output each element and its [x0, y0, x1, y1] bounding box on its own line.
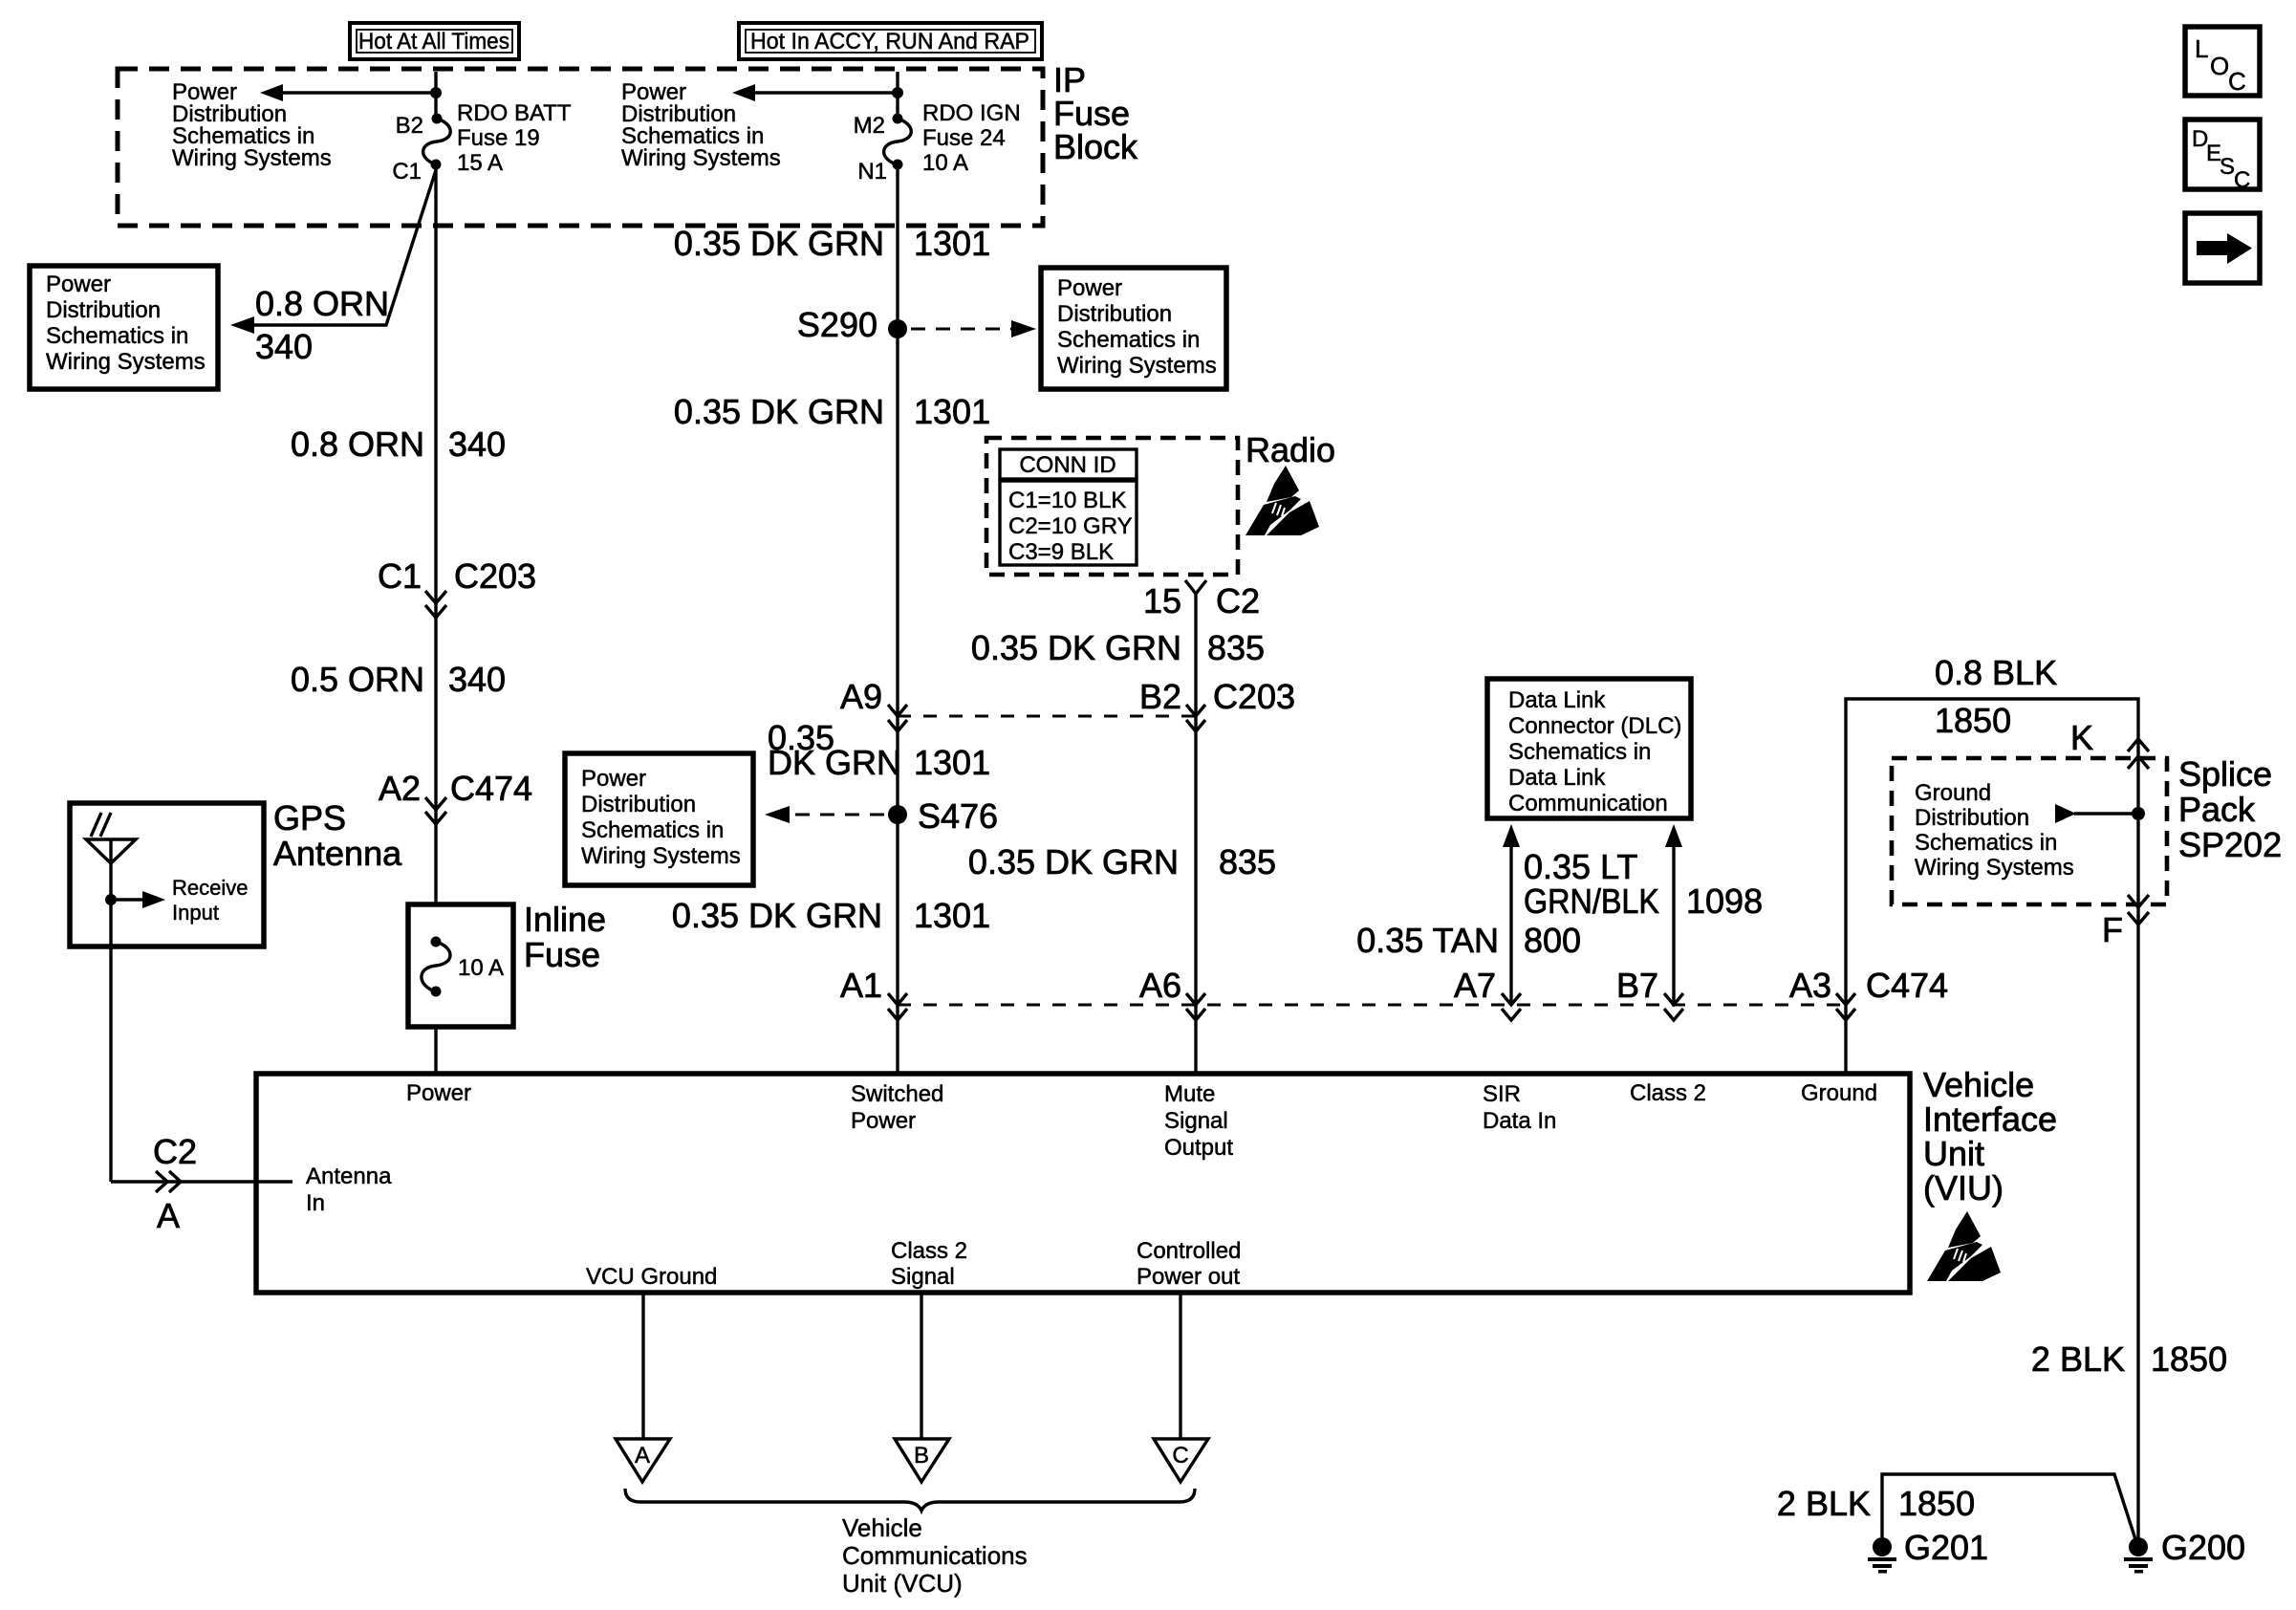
svg-text:C2: C2	[153, 1132, 197, 1171]
svg-text:1301: 1301	[914, 743, 990, 782]
text: Power Distribution Schematics in Wiring Systems (fuse block middle)	[621, 79, 781, 171]
svg-text:Wiring Systems: Wiring Systems	[46, 349, 206, 375]
svg-text:Data In: Data In	[1483, 1108, 1556, 1134]
svg-text:Power out: Power out	[1137, 1264, 1240, 1290]
svg-text:Connector (DLC): Connector (DLC)	[1508, 713, 1681, 739]
splice S290	[797, 305, 907, 344]
pin label: SIR Data In	[1483, 1081, 1556, 1134]
box: GPS Antenna	[70, 803, 264, 946]
IP Fuse Block dashed boundary	[118, 69, 1043, 226]
svg-text:S476: S476	[918, 796, 998, 836]
ESD symbol (VIU)	[1927, 1211, 2001, 1281]
brace: Vehicle Communications Unit group	[625, 1489, 1195, 1511]
svg-text:Distribution: Distribution	[581, 792, 696, 817]
svg-text:C203: C203	[1213, 677, 1295, 716]
svg-text:Receive: Receive	[172, 876, 248, 900]
connector A2 / C474 (power wire)	[379, 769, 532, 824]
pin label: Mute Signal Output	[1164, 1081, 1233, 1161]
box: Power Distribution Schematics in Wiring Systems (right of S290)	[1041, 268, 1226, 389]
node: junction on RDO IGN feed	[892, 87, 903, 98]
pin label: Controlled Power out	[1137, 1238, 1241, 1290]
terminal A	[616, 1439, 670, 1482]
svg-text:Block: Block	[1053, 127, 1138, 166]
wire: SIR data in 0.35 TAN 800 (arrow up into DLC)	[1503, 824, 1520, 1005]
svg-text:Unit (VCU): Unit (VCU)	[842, 1569, 963, 1598]
svg-text:C2=10 GRY: C2=10 GRY	[1008, 513, 1133, 539]
connector C2 / A (antenna lead)	[153, 1132, 197, 1235]
svg-text:C474: C474	[450, 769, 532, 808]
arrow: Receive Input	[111, 876, 248, 925]
svg-text:Fuse 24: Fuse 24	[922, 125, 1006, 151]
svg-text:(VIU): (VIU)	[1923, 1168, 2004, 1207]
label: 0.35 LT GRN/BLK / 1098	[1524, 847, 1763, 921]
arrow: ground distribution tap	[2055, 804, 2138, 823]
label: 0.35 DK GRN / 835 (below B2)	[968, 842, 1276, 881]
wire: VCU ground lead A	[641, 1293, 644, 1439]
svg-text:A1: A1	[840, 966, 882, 1005]
ground G200	[2124, 1528, 2245, 1574]
label: Splice Pack SP202	[2178, 754, 2282, 864]
svg-text:C: C	[2234, 167, 2250, 193]
svg-text:A3: A3	[1789, 966, 1831, 1005]
svg-text:835: 835	[1219, 842, 1276, 881]
wire: inline fuse to VIU Power pin	[434, 1027, 437, 1074]
fuse: RDO BATT Fuse 19 15 A	[392, 100, 572, 185]
wire: Controlled power out lead C	[1179, 1293, 1181, 1439]
svg-text:Inline: Inline	[524, 900, 606, 939]
svg-text:15 A: 15 A	[457, 150, 503, 176]
svg-text:RDO IGN: RDO IGN	[922, 100, 1021, 126]
svg-text:C1: C1	[378, 556, 422, 596]
svg-text:M2: M2	[854, 113, 885, 139]
svg-text:C: C	[1172, 1443, 1188, 1469]
svg-text:GPS: GPS	[273, 798, 346, 838]
svg-text:Distribution: Distribution	[46, 297, 161, 323]
svg-text:Controlled: Controlled	[1137, 1238, 1241, 1264]
svg-text:A: A	[157, 1196, 180, 1235]
box: Data Link Connector (DLC) Schematics	[1487, 679, 1691, 818]
svg-text:C3=9 BLK: C3=9 BLK	[1008, 539, 1114, 565]
svg-text:Hot At All Times: Hot At All Times	[358, 29, 509, 54]
svg-text:0.35 DK GRN: 0.35 DK GRN	[674, 392, 884, 431]
label: 0.35 DK GRN / 1301 (above S290)	[674, 224, 990, 263]
dashed arrow: S290 to Power Distribution box	[911, 320, 1036, 337]
svg-text:G200: G200	[2161, 1528, 2245, 1567]
svg-text:Power: Power	[1057, 275, 1122, 301]
svg-text:0.8 ORN: 0.8 ORN	[291, 424, 424, 464]
text: Ground Distribution Schematics in Wiring Systems	[1915, 780, 2074, 881]
svg-text:A: A	[635, 1443, 650, 1469]
connector A1 (switched wire at C474)	[840, 966, 907, 1020]
svg-text:1098: 1098	[1686, 881, 1763, 921]
svg-text:Data Link: Data Link	[1508, 687, 1606, 713]
text: Power Distribution Schematics in Wiring Systems (fuse block left)	[172, 79, 332, 171]
connector K (splice pack input)	[2070, 718, 2149, 769]
svg-text:Wiring Systems: Wiring Systems	[1057, 353, 1217, 379]
svg-text:Schematics in: Schematics in	[1057, 327, 1200, 353]
svg-text:Distribution: Distribution	[1057, 301, 1172, 327]
svg-text:Schematics in: Schematics in	[581, 817, 724, 843]
label: 2 BLK / 1850 (main ground wire)	[2031, 1339, 2227, 1379]
svg-text:Ground: Ground	[1801, 1080, 1877, 1106]
pin label: Switched Power	[851, 1081, 943, 1134]
box: Power Distribution Schematics in Wiring Systems (center)	[565, 753, 753, 885]
svg-text:10 A: 10 A	[922, 150, 968, 176]
label: 0.8 ORN / 340 (branch)	[255, 284, 389, 366]
svg-text:0.35 TAN: 0.35 TAN	[1356, 921, 1499, 960]
dashed connector line C474 (A1 to A3)	[898, 1004, 1846, 1007]
connector C1 / C203 (power wire)	[378, 556, 536, 618]
svg-text:Unit: Unit	[1923, 1134, 1984, 1173]
connector A3 / C474 (ground wire)	[1789, 966, 1948, 1020]
svg-text:F: F	[2102, 910, 2123, 949]
label: 0.35 DK GRN / 1301 (below S290)	[674, 392, 990, 431]
wire: branch to G201	[1882, 1474, 2135, 1539]
svg-text:Communications: Communications	[842, 1541, 1028, 1570]
svg-text:Class 2: Class 2	[891, 1238, 967, 1264]
svg-text:1850: 1850	[1898, 1484, 1975, 1523]
svg-text:C2: C2	[1216, 581, 1260, 620]
svg-text:Communication: Communication	[1508, 791, 1668, 816]
svg-text:Vehicle: Vehicle	[1923, 1065, 2034, 1104]
svg-text:1301: 1301	[914, 896, 990, 935]
svg-text:B7: B7	[1616, 966, 1658, 1005]
svg-text:SP202: SP202	[2178, 825, 2282, 864]
label: 0.35 / DK GRN / 1301 (below A9)	[768, 718, 990, 782]
svg-text:CONN ID: CONN ID	[1019, 452, 1116, 478]
svg-text:S290: S290	[797, 305, 877, 344]
wire: RDO BATT feed from hot bus	[434, 72, 437, 119]
svg-text:Power: Power	[581, 766, 646, 792]
svg-text:0.8 BLK: 0.8 BLK	[1935, 653, 2057, 692]
svg-text:Schematics in: Schematics in	[1915, 830, 2057, 856]
icon: LOC	[2185, 27, 2260, 96]
svg-text:1301: 1301	[914, 392, 990, 431]
svg-text:B: B	[914, 1443, 929, 1469]
connector A7 (SIR wire at C474)	[1454, 966, 1521, 1020]
wire: inside splice pack	[2136, 758, 2139, 904]
dashed arrow: S476 to Power Distribution box	[765, 806, 884, 823]
terminal C	[1154, 1439, 1208, 1482]
svg-text:Mute: Mute	[1164, 1081, 1215, 1107]
svg-text:In: In	[306, 1190, 325, 1216]
svg-text:G201: G201	[1904, 1528, 1988, 1567]
svg-text:835: 835	[1207, 628, 1265, 667]
svg-text:Vehicle: Vehicle	[842, 1513, 922, 1542]
icon: forward arrow	[2185, 213, 2260, 283]
svg-text:Hot In ACCY, RUN And RAP: Hot In ACCY, RUN And RAP	[750, 29, 1029, 54]
connector B7 (class 2 wire at C474)	[1616, 966, 1683, 1020]
svg-text:A2: A2	[379, 769, 421, 808]
wire: 0.8 ORN 340 branch (diagonal + horizontal)	[250, 170, 436, 325]
svg-text:10 A: 10 A	[458, 955, 504, 981]
svg-text:1850: 1850	[2151, 1339, 2227, 1379]
label: 0.8 BLK / 1850	[1935, 653, 2057, 740]
svg-text:Power: Power	[406, 1080, 471, 1106]
svg-text:Signal: Signal	[1164, 1108, 1228, 1134]
svg-text:C203: C203	[454, 556, 536, 596]
Radio dashed boundary	[986, 438, 1238, 575]
svg-text:Switched: Switched	[851, 1081, 943, 1107]
svg-text:C1=10 BLK: C1=10 BLK	[1008, 488, 1126, 513]
svg-text:Class 2: Class 2	[1630, 1080, 1706, 1106]
svg-text:Radio: Radio	[1245, 430, 1335, 469]
label box "Hot In ACCY, RUN And RAP"	[739, 23, 1042, 59]
svg-text:Splice: Splice	[2178, 754, 2272, 794]
label: 0.35 TAN / 800	[1356, 921, 1581, 960]
svg-text:0.35 DK GRN: 0.35 DK GRN	[674, 224, 884, 263]
label: Inline Fuse	[524, 900, 606, 974]
wire: power 0.8 ORN / 0.5 ORN (RDO BATT to inline fuse)	[434, 164, 437, 904]
connector 15 / C2 (radio output)	[1143, 580, 1260, 620]
icon: DESC	[2185, 120, 2260, 193]
IP Fuse Block name	[1053, 60, 1138, 166]
splice S476	[888, 796, 998, 836]
wire: Class 2 0.35 LT GRN/BLK 1098 (arrow up into DLC)	[1665, 824, 1682, 1005]
node: antenna junction	[105, 894, 117, 905]
svg-text:0.35 DK GRN: 0.35 DK GRN	[672, 896, 882, 935]
svg-text:340: 340	[448, 424, 506, 464]
wire: mute signal 0.35 DK GRN 835	[1194, 594, 1197, 1074]
inline fuse 10 A	[408, 904, 513, 1027]
node: junction on RDO BATT feed	[430, 87, 442, 98]
svg-text:800: 800	[1524, 921, 1581, 960]
svg-text:Schematics in: Schematics in	[46, 323, 188, 349]
connector A6 (mute wire at C474)	[1139, 966, 1205, 1020]
label: 2 BLK / 1850 (G201 branch)	[1777, 1484, 1975, 1523]
label: 0.35 DK GRN / 1301 (above A1)	[672, 896, 990, 935]
svg-text:DK GRN: DK GRN	[768, 743, 901, 782]
svg-text:0.8 ORN: 0.8 ORN	[255, 284, 389, 323]
fuse: RDO IGN Fuse 24 10 A	[854, 100, 1021, 185]
Splice Pack SP202 dashed boundary	[1892, 758, 2167, 904]
label: 0.8 ORN / 340 (on power wire)	[291, 424, 506, 464]
arrowhead: 0.8 ORN branch to Power Distribution box	[230, 316, 254, 334]
svg-text:Data Link: Data Link	[1508, 765, 1606, 791]
label: 0.5 ORN / 340	[291, 660, 506, 699]
svg-text:K: K	[2070, 718, 2093, 757]
label: Vehicle Communications Unit (VCU)	[842, 1513, 1028, 1598]
Vehicle Interface Unit (VIU) box	[256, 1074, 1910, 1293]
CONN ID table	[1000, 449, 1137, 565]
terminal B	[895, 1439, 949, 1482]
svg-text:Signal: Signal	[891, 1264, 955, 1290]
ESD symbol (Radio)	[1245, 466, 1319, 535]
svg-text:Wiring Systems: Wiring Systems	[172, 145, 332, 171]
svg-text:340: 340	[255, 327, 313, 366]
svg-text:Antenna: Antenna	[306, 1164, 392, 1189]
svg-text:C: C	[2228, 67, 2246, 96]
connector B2 / C203 (mute wire)	[1139, 677, 1295, 731]
antenna symbol	[86, 813, 136, 863]
svg-text:L: L	[2195, 34, 2208, 63]
label: Vehicle Interface Unit (VIU)	[1923, 1065, 2057, 1207]
svg-text:Fuse: Fuse	[524, 935, 600, 974]
svg-text:SIR: SIR	[1483, 1081, 1521, 1107]
svg-text:Ground: Ground	[1915, 780, 1991, 806]
svg-text:Schematics in: Schematics in	[1508, 739, 1651, 765]
svg-text:O: O	[2210, 52, 2229, 80]
svg-text:0.35 LT: 0.35 LT	[1524, 847, 1637, 886]
svg-text:1850: 1850	[1935, 701, 2011, 740]
svg-text:A6: A6	[1139, 966, 1181, 1005]
svg-text:RDO BATT: RDO BATT	[457, 100, 572, 126]
svg-text:C1: C1	[392, 159, 422, 185]
pin label: Class 2 Signal	[891, 1238, 967, 1290]
svg-text:Output: Output	[1164, 1135, 1233, 1161]
svg-text:B2: B2	[396, 113, 423, 139]
pin label: Antenna In	[306, 1164, 392, 1216]
svg-text:Power: Power	[46, 272, 111, 297]
node: splice junction	[2132, 807, 2145, 820]
svg-text:1301: 1301	[914, 224, 990, 263]
svg-text:B2: B2	[1139, 677, 1181, 716]
box: Power Distribution Schematics in Wiring Systems (far left)	[30, 266, 218, 389]
svg-text:0.35 DK GRN: 0.35 DK GRN	[968, 842, 1179, 881]
label box "Hot At All Times"	[350, 23, 519, 59]
svg-text:Wiring Systems: Wiring Systems	[621, 145, 781, 171]
svg-text:GRN/BLK: GRN/BLK	[1524, 881, 1659, 921]
wire: antenna lead down and out of GPS box	[109, 839, 112, 1182]
dashed connector line C203 (A9 to B2)	[898, 715, 1196, 718]
svg-text:0.35 DK GRN: 0.35 DK GRN	[971, 628, 1181, 667]
svg-text:N1: N1	[857, 159, 887, 185]
svg-text:Wiring Systems: Wiring Systems	[581, 843, 741, 869]
svg-text:2 BLK: 2 BLK	[1777, 1484, 1871, 1523]
svg-text:2 BLK: 2 BLK	[2031, 1339, 2125, 1379]
svg-text:VCU Ground: VCU Ground	[586, 1264, 717, 1290]
arrow: to Power Distribution Schematics (RDO BATT)	[260, 84, 436, 101]
svg-text:Antenna: Antenna	[273, 834, 402, 873]
label: 0.35 DK GRN / 835 (above B2)	[971, 628, 1265, 667]
label: GPS Antenna	[273, 798, 402, 873]
connector A9 (switched wire at C203)	[840, 677, 907, 731]
ground G201	[1868, 1528, 1988, 1574]
svg-text:A7: A7	[1454, 966, 1496, 1005]
wire: Class 2 signal lead B	[920, 1293, 922, 1439]
svg-text:0.5 ORN: 0.5 ORN	[291, 660, 424, 699]
connector F (splice pack output)	[2102, 895, 2149, 949]
svg-text:Pack: Pack	[2178, 790, 2256, 829]
svg-text:Input: Input	[172, 901, 219, 925]
wire: ground 0.8 BLK from VIU up and over to splice pack	[1846, 699, 2138, 1074]
svg-text:Interface: Interface	[1923, 1099, 2057, 1139]
svg-text:S: S	[2220, 154, 2235, 180]
svg-text:Fuse 19: Fuse 19	[457, 125, 540, 151]
svg-text:Distribution: Distribution	[1915, 805, 2029, 831]
svg-text:340: 340	[448, 660, 506, 699]
svg-text:15: 15	[1143, 581, 1181, 620]
wire: 2 BLK 1850 down to G200	[2136, 907, 2139, 1541]
svg-text:A9: A9	[840, 677, 882, 716]
svg-text:Wiring Systems: Wiring Systems	[1915, 855, 2074, 881]
wire: antenna lead to VIU Antenna In	[111, 1180, 292, 1183]
wire: RDO IGN feed from hot bus	[896, 72, 899, 119]
wire: switched power (RDO IGN to VIU)	[896, 164, 899, 1074]
arrow: to Power Distribution Schematics (RDO IGN)	[732, 84, 898, 101]
svg-text:Power: Power	[851, 1108, 916, 1134]
svg-text:C474: C474	[1866, 966, 1948, 1005]
